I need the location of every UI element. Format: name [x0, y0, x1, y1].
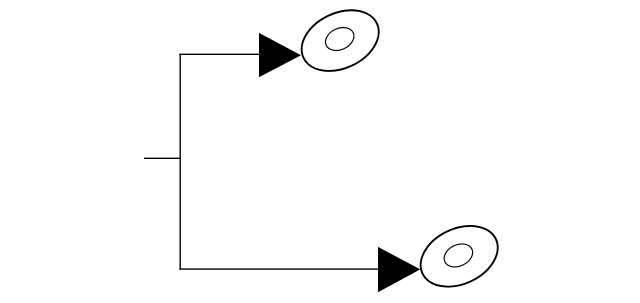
arrowhead: top branch [259, 33, 301, 77]
node: bottom inner ellipse [440, 239, 476, 271]
arrowhead: bottom branch [378, 247, 420, 292]
wire: left input stub [144, 157, 181, 159]
node: bottom outer ellipse [411, 214, 508, 298]
node: top outer ellipse [292, 0, 389, 83]
wire: vertical trunk [179, 54, 181, 270]
node: top inner ellipse [322, 23, 358, 55]
wire: bottom branch [179, 268, 380, 270]
wire: top branch [179, 53, 261, 55]
